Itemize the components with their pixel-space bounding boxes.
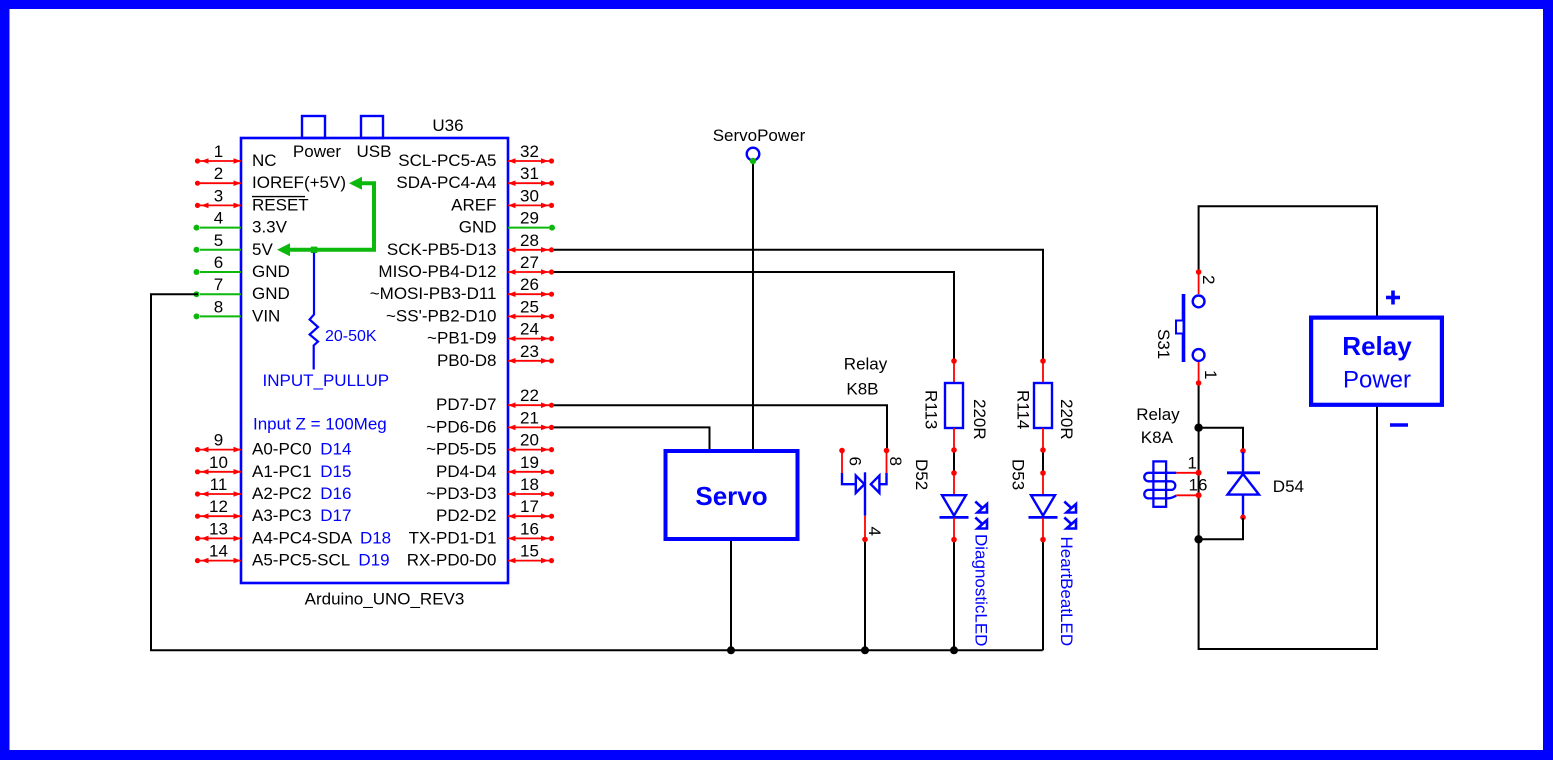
svg-text:AREF: AREF bbox=[451, 195, 496, 214]
svg-text:3: 3 bbox=[214, 186, 223, 205]
svg-text:12: 12 bbox=[209, 497, 228, 516]
wire pin21 D6 to Servo bbox=[554, 427, 710, 449]
svg-text:4: 4 bbox=[214, 209, 223, 228]
wire R113 to D52 bbox=[953, 450, 955, 473]
resistor R114 220R bbox=[1014, 358, 1077, 453]
svg-text:Relay: Relay bbox=[844, 355, 888, 374]
svg-text:GND: GND bbox=[252, 262, 290, 281]
svg-text:Power: Power bbox=[293, 142, 342, 161]
svg-text:Relay: Relay bbox=[1136, 405, 1180, 424]
svg-text:10: 10 bbox=[209, 453, 228, 472]
svg-text:A3-PC3 D17: A3-PC3 D17 bbox=[252, 506, 351, 525]
wire pin27 D12 to R113 bbox=[554, 272, 954, 360]
pin 2 stub (left) bbox=[195, 164, 241, 186]
svg-text:19: 19 bbox=[520, 453, 539, 472]
svg-text:D54: D54 bbox=[1273, 477, 1304, 496]
svg-text:NC: NC bbox=[252, 151, 277, 170]
pin 12 stub (left) bbox=[195, 497, 241, 519]
svg-text:D52: D52 bbox=[912, 459, 931, 490]
svg-text:16: 16 bbox=[520, 519, 539, 538]
pin 16 stub (right) bbox=[508, 519, 554, 541]
wire ServoPower to Servo bbox=[752, 162, 754, 449]
svg-text:1: 1 bbox=[214, 142, 223, 161]
pin 28 stub (right) bbox=[508, 231, 554, 253]
svg-text:28: 28 bbox=[520, 231, 539, 250]
node ServoPower terminal bbox=[713, 126, 806, 164]
svg-text:~PB1-D9: ~PB1-D9 bbox=[427, 329, 496, 348]
svg-text:3.3V: 3.3V bbox=[252, 218, 288, 237]
LED D52 bbox=[912, 459, 991, 646]
svg-text:IOREF(+5V): IOREF(+5V) bbox=[252, 173, 346, 192]
svg-text:16: 16 bbox=[1189, 476, 1208, 495]
junction K8A top bbox=[1194, 424, 1202, 432]
wire GND pin7 to ground bus bbox=[151, 294, 1043, 650]
svg-text:220R: 220R bbox=[1057, 399, 1076, 440]
Power connector tab bbox=[302, 116, 325, 138]
junction Servo/bus bbox=[727, 646, 735, 654]
svg-text:A4-PC4-SDA D18: A4-PC4-SDA D18 bbox=[252, 528, 391, 547]
svg-text:6: 6 bbox=[214, 253, 223, 272]
wire pin22 D7 to relay K8B bbox=[554, 405, 887, 449]
svg-text:1: 1 bbox=[1188, 454, 1197, 473]
svg-text:PD2-D2: PD2-D2 bbox=[436, 506, 496, 525]
svg-text:Relay: Relay bbox=[1342, 331, 1412, 361]
svg-text:HeartBeatLED: HeartBeatLED bbox=[1057, 537, 1076, 647]
pin 11 stub (left) bbox=[195, 475, 241, 497]
svg-text:24: 24 bbox=[520, 320, 539, 339]
svg-text:2: 2 bbox=[214, 164, 223, 183]
pin 27 stub (right) bbox=[508, 253, 554, 275]
svg-text:4: 4 bbox=[865, 527, 884, 536]
pin 22 stub (right) bbox=[508, 386, 554, 408]
wire D52 to bus bbox=[953, 540, 955, 650]
pin 32 stub (right) bbox=[508, 142, 554, 164]
svg-text:PD4-D4: PD4-D4 bbox=[436, 462, 496, 481]
pin 26 stub (right) bbox=[508, 275, 554, 297]
wire D53 to bus bbox=[1042, 540, 1044, 650]
pin 18 stub (right) bbox=[508, 475, 554, 497]
svg-text:~MOSI-PB3-D11: ~MOSI-PB3-D11 bbox=[370, 284, 497, 303]
wire right loop bottom bbox=[1199, 383, 1377, 649]
pin 5 stub (left, power) bbox=[194, 231, 242, 253]
svg-text:ServoPower: ServoPower bbox=[713, 126, 806, 145]
junction K8B/bus bbox=[861, 646, 869, 654]
svg-text:26: 26 bbox=[520, 275, 539, 294]
svg-text:U36: U36 bbox=[432, 116, 463, 135]
svg-text:SCL-PC5-A5: SCL-PC5-A5 bbox=[398, 151, 496, 170]
LED D53 bbox=[1009, 459, 1077, 646]
pin 24 stub (right) bbox=[508, 320, 554, 342]
pin 13 stub (left) bbox=[195, 519, 241, 541]
pin 25 stub (right) bbox=[508, 297, 554, 319]
svg-text:A0-PC0 D14: A0-PC0 D14 bbox=[252, 440, 351, 459]
pin 19 stub (right) bbox=[508, 453, 554, 475]
wire green jumper IOREF(+5V) to 5V bbox=[277, 177, 374, 257]
pin 3 stub (left) bbox=[195, 186, 241, 208]
pin 9 stub (left) bbox=[195, 431, 241, 453]
svg-text:22: 22 bbox=[520, 386, 539, 405]
USB connector tab bbox=[361, 116, 383, 138]
pin 14 stub (left) bbox=[195, 542, 241, 564]
wire relay K8B pin4 to bus bbox=[864, 539, 866, 650]
RESET overline bbox=[252, 196, 305, 198]
svg-text:VIN: VIN bbox=[252, 306, 280, 325]
svg-text:GND: GND bbox=[459, 218, 497, 237]
svg-text:18: 18 bbox=[520, 475, 539, 494]
svg-text:~PD5-D5: ~PD5-D5 bbox=[426, 440, 496, 459]
svg-text:11: 11 bbox=[210, 475, 228, 494]
pin 15 stub (right) bbox=[508, 542, 554, 564]
pin 20 stub (right) bbox=[508, 431, 554, 453]
resistor internal pull-up 20-50K bbox=[310, 253, 318, 370]
svg-text:17: 17 bbox=[520, 497, 539, 516]
wire R114 to D53 bbox=[1042, 450, 1044, 473]
minus terminal label bbox=[1390, 423, 1408, 427]
Servo block bbox=[666, 451, 798, 539]
relay K8B coil bbox=[839, 355, 905, 543]
relay K8A coil bbox=[1136, 405, 1207, 507]
pin 4 stub (left, power) bbox=[194, 209, 242, 231]
wire right loop top bbox=[1199, 206, 1377, 316]
svg-text:A5-PC5-SCL D19: A5-PC5-SCL D19 bbox=[252, 551, 390, 570]
wire pin28 D13 to R114 bbox=[554, 250, 1043, 360]
svg-text:9: 9 bbox=[214, 431, 223, 450]
svg-text:Power: Power bbox=[1343, 367, 1411, 394]
svg-text:Servo: Servo bbox=[695, 481, 767, 511]
svg-text:~PD6-D6: ~PD6-D6 bbox=[426, 417, 496, 436]
svg-text:PB0-D8: PB0-D8 bbox=[437, 351, 497, 370]
svg-text:Arduino_UNO_REV3: Arduino_UNO_REV3 bbox=[305, 590, 465, 609]
svg-text:2: 2 bbox=[1199, 275, 1218, 284]
svg-text:A1-PC1 D15: A1-PC1 D15 bbox=[252, 462, 351, 481]
svg-text:RESET: RESET bbox=[252, 195, 309, 214]
svg-text:8: 8 bbox=[886, 457, 905, 466]
svg-text:30: 30 bbox=[520, 186, 539, 205]
pin 17 stub (right) bbox=[508, 497, 554, 519]
pin 7 stub (left, power) bbox=[194, 275, 242, 297]
svg-text:32: 32 bbox=[520, 142, 539, 161]
pin 21 stub (right) bbox=[508, 408, 554, 430]
svg-text:1: 1 bbox=[1201, 370, 1220, 379]
svg-text:R113: R113 bbox=[922, 390, 941, 429]
svg-text:25: 25 bbox=[520, 297, 539, 316]
svg-text:20: 20 bbox=[520, 431, 539, 450]
pin 30 stub (right) bbox=[508, 186, 554, 208]
svg-text:SCK-PB5-D13: SCK-PB5-D13 bbox=[387, 240, 497, 259]
svg-text:Input Z = 100Meg: Input Z = 100Meg bbox=[253, 415, 387, 434]
svg-text:USB: USB bbox=[357, 142, 392, 161]
wire Servo to bus bbox=[730, 541, 732, 650]
svg-text:PD7-D7: PD7-D7 bbox=[436, 395, 496, 414]
switch S31 pushbutton bbox=[1154, 269, 1220, 386]
pin 6 stub (left, power) bbox=[194, 253, 242, 275]
svg-text:5: 5 bbox=[214, 231, 223, 250]
pin 10 stub (left) bbox=[195, 453, 241, 475]
svg-text:TX-PD1-D1: TX-PD1-D1 bbox=[409, 528, 497, 547]
svg-text:RX-PD0-D0: RX-PD0-D0 bbox=[407, 551, 497, 570]
svg-text:~PD3-D3: ~PD3-D3 bbox=[426, 484, 496, 503]
svg-text:27: 27 bbox=[520, 253, 539, 272]
svg-text:A2-PC2 D16: A2-PC2 D16 bbox=[252, 484, 351, 503]
svg-text:S31: S31 bbox=[1154, 329, 1173, 359]
svg-text:R114: R114 bbox=[1014, 390, 1033, 429]
junction D52/bus bbox=[950, 646, 958, 654]
svg-text:K8B: K8B bbox=[846, 380, 878, 399]
pin 31 stub (right) bbox=[508, 164, 554, 186]
svg-text:~SS'-PB2-D10: ~SS'-PB2-D10 bbox=[386, 306, 497, 325]
pin 29 stub (right, power) bbox=[508, 209, 555, 231]
svg-text:MISO-PB4-D12: MISO-PB4-D12 bbox=[378, 262, 496, 281]
svg-text:INPUT_PULLUP: INPUT_PULLUP bbox=[263, 371, 390, 390]
svg-text:D53: D53 bbox=[1009, 459, 1028, 490]
svg-text:31: 31 bbox=[520, 164, 539, 183]
resistor R113 220R bbox=[922, 358, 990, 453]
diode D54 bbox=[1199, 428, 1304, 540]
svg-text:23: 23 bbox=[520, 342, 539, 361]
svg-text:20-50K: 20-50K bbox=[325, 328, 377, 345]
svg-text:SDA-PC4-A4: SDA-PC4-A4 bbox=[396, 173, 496, 192]
svg-text:220R: 220R bbox=[970, 399, 989, 440]
Relay Power block bbox=[1311, 318, 1442, 405]
svg-text:DiagnosticLED: DiagnosticLED bbox=[972, 534, 991, 646]
IC U36 Arduino_UNO_REV3 body outline bbox=[241, 138, 508, 583]
pin 23 stub (right) bbox=[508, 342, 554, 364]
svg-text:15: 15 bbox=[520, 542, 539, 561]
svg-text:13: 13 bbox=[209, 519, 228, 538]
svg-text:8: 8 bbox=[214, 297, 223, 316]
svg-text:5V: 5V bbox=[252, 240, 273, 259]
junction K8A bottom bbox=[1194, 535, 1202, 543]
pin 1 stub (left) bbox=[195, 142, 241, 164]
svg-text:6: 6 bbox=[846, 457, 865, 466]
svg-text:29: 29 bbox=[520, 209, 539, 228]
svg-text:7: 7 bbox=[214, 275, 223, 294]
svg-text:K8A: K8A bbox=[1141, 428, 1174, 447]
svg-text:21: 21 bbox=[520, 408, 539, 427]
pin 8 stub (left, power) bbox=[194, 297, 242, 319]
svg-text:14: 14 bbox=[209, 542, 228, 561]
svg-text:GND: GND bbox=[252, 284, 290, 303]
plus terminal label bbox=[1386, 291, 1400, 305]
